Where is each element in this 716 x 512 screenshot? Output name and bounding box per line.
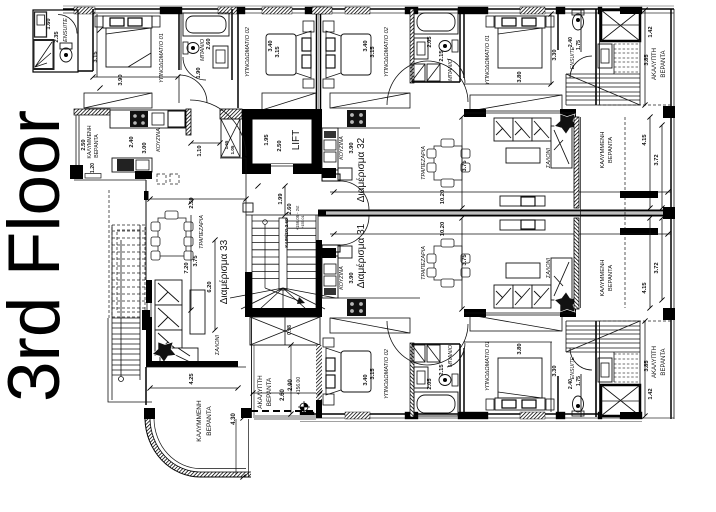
external stair lower treads xyxy=(108,225,152,402)
svg-text:ENSUITE: ENSUITE xyxy=(570,356,576,379)
veranda dims xyxy=(150,387,238,389)
svg-text:3.85: 3.85 xyxy=(644,54,650,66)
apt33 left wall xyxy=(146,280,152,366)
ensuite right wall xyxy=(580,9,582,52)
washbasin cabinet xyxy=(35,12,47,37)
svg-text:3.15: 3.15 xyxy=(275,46,281,58)
main staircase xyxy=(230,215,336,310)
toilet apt32 xyxy=(452,40,458,52)
svg-text:ΑΚΑΛΥΠΤΗ: ΑΚΑΛΥΠΤΗ xyxy=(652,48,658,80)
external stair dashed upper flight xyxy=(109,190,145,318)
svg-text:10.20: 10.20 xyxy=(440,222,446,237)
dining table apt32 xyxy=(427,139,470,187)
bedroom01-32 walls xyxy=(463,9,465,78)
kitchen top counter xyxy=(110,110,186,128)
svg-text:+156.00: +156.00 xyxy=(296,377,302,395)
svg-text:3.30: 3.30 xyxy=(552,49,558,60)
svg-text:ΒΕΡΑΝΤΑ: ΒΕΡΑΝΤΑ xyxy=(608,265,614,291)
svg-text:2.40: 2.40 xyxy=(568,379,574,389)
svg-text:ΑΚΑΛΥΠΤΗ: ΑΚΑΛΥΠΤΗ xyxy=(257,375,264,409)
svg-text:ΚΟΥΖΙΝΑ: ΚΟΥΖΙΝΑ xyxy=(339,136,345,160)
toilet apt33 xyxy=(183,42,188,54)
svg-text:1.60: 1.60 xyxy=(46,18,52,29)
svg-text:Διαμέρισμα 33: Διαμέρισμα 33 xyxy=(218,239,230,304)
bathtub apt33 xyxy=(183,13,229,36)
side tables xyxy=(95,16,103,27)
corner columns xyxy=(144,408,155,419)
svg-text:ΥΠΝΟΔΩΜΑΤΙΟ 01: ΥΠΝΟΔΩΜΑΤΙΟ 01 xyxy=(485,341,491,391)
party wall bedrooms 33/32 xyxy=(316,9,318,109)
apt33 entry door xyxy=(243,203,253,212)
sofa apt33 xyxy=(155,280,198,364)
svg-text:1.95: 1.95 xyxy=(264,134,270,146)
svg-text:ΒΕΡΑΝΤΑ: ΒΕΡΑΝΤΑ xyxy=(266,377,273,406)
wardrobe apt33-01 xyxy=(84,93,152,108)
sofa apt32 xyxy=(494,118,572,168)
dashed veranda line xyxy=(624,117,626,308)
svg-text:2.60: 2.60 xyxy=(280,389,286,401)
svg-text:1.42: 1.42 xyxy=(648,26,654,37)
stair walls xyxy=(245,272,252,317)
bedroom right wall xyxy=(178,9,180,70)
svg-text:ΒΕΡΑΝΤΑ: ΒΕΡΑΝΤΑ xyxy=(661,348,667,375)
svg-text:ΚΟΥΖΙΝΑ: ΚΟΥΖΙΝΑ xyxy=(156,128,162,152)
svg-text:ENSUITE: ENSUITE xyxy=(570,46,576,69)
svg-text:4.15: 4.15 xyxy=(642,282,648,294)
svg-text:3.40: 3.40 xyxy=(363,40,369,51)
ensuite apt33 outline xyxy=(33,10,78,72)
kitchen island apt32 xyxy=(322,168,336,178)
toilet ensuite33 xyxy=(60,43,72,49)
corridor walls around stair top xyxy=(220,157,246,159)
svg-text:ΜΠΑΝΙΟ: ΜΠΑΝΙΟ xyxy=(448,58,454,81)
svg-text:1.42: 1.42 xyxy=(648,388,654,399)
bed apt33-01 body xyxy=(106,28,151,67)
svg-text:ΣΑΛΟΝΙ: ΣΑΛΟΝΙ xyxy=(546,257,552,279)
svg-text:+155.01: +155.01 xyxy=(301,215,305,228)
svg-text:1.99: 1.99 xyxy=(278,193,284,205)
veranda wall hatched top xyxy=(74,109,110,115)
stair shaft box topright xyxy=(601,10,640,41)
svg-text:ΒΕΡΑΝΤΑ: ΒΕΡΑΝΤΑ xyxy=(661,50,667,77)
svg-text:3.75: 3.75 xyxy=(462,254,468,266)
svg-text:ΥΠΝΟΔΩΜΑΤΙΟ 02: ΥΠΝΟΔΩΜΑΤΙΟ 02 xyxy=(384,26,390,77)
svg-text:1.20: 1.20 xyxy=(90,163,96,173)
washbasin apt32 xyxy=(414,38,428,59)
svg-text:2.60: 2.60 xyxy=(206,38,212,49)
kitchen island xyxy=(112,158,152,172)
svg-text:2.15: 2.15 xyxy=(439,364,445,376)
stools xyxy=(157,174,166,184)
door arc bedroom01-33 xyxy=(179,75,207,103)
cabinet boxes xyxy=(412,64,425,81)
svg-text:ΚΟΥΖΙΝΑ: ΚΟΥΖΙΝΑ xyxy=(339,266,345,290)
corridor arc apt33 xyxy=(190,100,246,156)
svg-text:2.15: 2.15 xyxy=(439,50,445,62)
plant apt33 xyxy=(153,342,177,362)
svg-text:LIFT: LIFT xyxy=(291,130,302,151)
fridge xyxy=(168,111,185,127)
entry door apt32 xyxy=(322,174,340,181)
middle lower boundary lines xyxy=(251,317,253,418)
svg-text:ΜΠΑΝΙΟ: ΜΠΑΝΙΟ xyxy=(448,344,454,367)
svg-text:+156.05 - 2st: +156.05 - 2st xyxy=(295,205,300,230)
party wall between apt31 and apt32 xyxy=(318,209,674,211)
dimension tick marks xyxy=(90,7,670,479)
svg-text:3.90: 3.90 xyxy=(349,142,355,153)
svg-text:ΥΠΝΟΔΩΜΑΤΙΟ 02: ΥΠΝΟΔΩΜΑΤΙΟ 02 xyxy=(245,26,251,77)
svg-text:0.98: 0.98 xyxy=(287,325,293,335)
hob apt32 xyxy=(347,110,366,127)
bathroom apt33 xyxy=(180,9,182,70)
svg-text:ΚΑΛΥΜΜΕΝΗ: ΚΑΛΥΜΜΕΝΗ xyxy=(600,260,606,297)
svg-text:ΚΑΛΥΜΜΕΝΗ: ΚΑΛΥΜΜΕΝΗ xyxy=(87,125,93,158)
tv unit apt32 xyxy=(500,196,545,206)
shower xyxy=(34,40,54,69)
svg-text:1.05: 1.05 xyxy=(230,145,235,154)
apartment31 mirrored geometry xyxy=(322,216,675,419)
washbasin by stairs xyxy=(598,44,612,68)
svg-text:3.30: 3.30 xyxy=(552,365,558,376)
svg-text:2.35: 2.35 xyxy=(54,31,60,43)
veranda left wall window xyxy=(75,115,77,168)
ensuite door arc xyxy=(58,15,77,34)
svg-text:3.80: 3.80 xyxy=(517,71,523,82)
bedroom02 apt33 walls xyxy=(237,9,239,108)
salon right wall xyxy=(574,117,579,208)
svg-text:ENSUITE: ENSUITE xyxy=(63,18,69,42)
svg-text:4.15: 4.15 xyxy=(642,134,648,146)
svg-text:ΒΕΡΑΝΤΑ: ΒΕΡΑΝΤΑ xyxy=(94,134,100,158)
svg-text:3.00: 3.00 xyxy=(142,142,148,153)
bed apt32-02 xyxy=(341,34,371,75)
svg-text:ΚΑΛΥΜΜΕΝΗ: ΚΑΛΥΜΜΕΝΗ xyxy=(196,400,203,442)
svg-text:3rd Floor: 3rd Floor xyxy=(0,110,75,402)
svg-text:ΣΑΛΟΝΙ: ΣΑΛΟΝΙ xyxy=(546,147,552,169)
svg-text:2.60: 2.60 xyxy=(287,203,293,214)
bathroom apt32 xyxy=(410,9,414,83)
bottom exterior wall xyxy=(300,413,642,415)
svg-text:3.40: 3.40 xyxy=(363,374,369,385)
svg-text:3.75: 3.75 xyxy=(462,160,468,172)
svg-text:ΥΠΝΟΔΩΜΑΤΙΟ 01: ΥΠΝΟΔΩΜΑΤΙΟ 01 xyxy=(485,35,491,85)
coffee table xyxy=(190,290,205,334)
svg-text:3.72: 3.72 xyxy=(654,262,660,273)
svg-text:3.15: 3.15 xyxy=(370,368,376,380)
svg-text:2.05: 2.05 xyxy=(427,36,433,48)
top exterior wall xyxy=(63,8,674,10)
lower stair flight topright xyxy=(566,41,640,105)
wardrobe apt32-02 xyxy=(330,93,410,108)
svg-text:1.10: 1.10 xyxy=(197,145,203,156)
washbasin apt33 xyxy=(213,46,228,68)
level marker xyxy=(300,403,308,411)
svg-text:3.85: 3.85 xyxy=(644,360,650,372)
svg-text:ΤΡΑΠΕΖΑΡΙΑ: ΤΡΑΠΕΖΑΡΙΑ xyxy=(421,146,427,180)
svg-text:2.40: 2.40 xyxy=(568,37,574,47)
hob xyxy=(130,111,148,127)
svg-text:ΒΕΡΑΝΤΑ: ΒΕΡΑΝΤΑ xyxy=(608,137,614,163)
svg-text:ΥΠΝΟΔΩΜΑΤΙΟ 02: ΥΠΝΟΔΩΜΑΤΙΟ 02 xyxy=(384,348,390,399)
wardrobe apt32-01 xyxy=(470,95,562,111)
svg-text:6.20: 6.20 xyxy=(207,281,213,292)
dashed boundary akalipti top xyxy=(598,104,671,106)
svg-text:ΒΕΡΑΝΤΑ: ΒΕΡΑΝΤΑ xyxy=(206,406,213,436)
svg-text:3.40: 3.40 xyxy=(268,40,274,51)
corridor arcs apt32 xyxy=(387,61,427,105)
svg-text:3.15: 3.15 xyxy=(93,51,99,63)
svg-text:ΣΑΛΟΝΙ: ΣΑΛΟΝΙ xyxy=(215,334,221,356)
svg-text:3.90: 3.90 xyxy=(118,74,124,85)
bathtub apt32 xyxy=(414,10,458,34)
sink xyxy=(152,113,164,125)
svg-text:2.40: 2.40 xyxy=(129,136,135,147)
bedroom01 apt33 left wall xyxy=(92,9,94,71)
bed apt33-02 (head against party wall) xyxy=(266,34,296,75)
void shaft below stair xyxy=(250,317,320,345)
svg-text:3.90: 3.90 xyxy=(349,272,355,283)
light shaft xyxy=(220,109,242,119)
divider black bars xyxy=(620,191,658,198)
svg-text:3.80: 3.80 xyxy=(517,343,523,354)
dining table apt33 xyxy=(151,211,193,260)
svg-text:ΚΑΛΥΜΜΕΝΗ: ΚΑΛΥΜΜΕΝΗ xyxy=(600,132,606,169)
bed apt32-01 xyxy=(495,16,545,28)
svg-text:2.50: 2.50 xyxy=(277,140,283,151)
svg-text:3.15: 3.15 xyxy=(370,46,376,58)
wall ensuite/stair xyxy=(595,9,597,105)
curved veranda edge xyxy=(148,419,252,475)
upper stair treads (dashed) xyxy=(614,44,640,72)
apt33 bottom wall xyxy=(146,361,238,367)
svg-text:7.20: 7.20 xyxy=(184,262,190,273)
svg-text:3.72: 3.72 xyxy=(654,154,660,165)
svg-text:ΤΡΑΠΕΖΑΡΙΑ: ΤΡΑΠΕΖΑΡΙΑ xyxy=(421,246,427,280)
coffee table apt32 xyxy=(506,148,540,163)
ensuite apt32 xyxy=(573,14,584,30)
dim 3.15 xyxy=(96,14,98,77)
axis right end block xyxy=(663,207,675,219)
svg-text:1.90: 1.90 xyxy=(196,67,202,78)
right exterior boundary xyxy=(670,9,672,419)
kitchen apt32 counter xyxy=(322,128,338,170)
svg-text:ΤΡΑΠΕΖΑΡΙΑ: ΤΡΑΠΕΖΑΡΙΑ xyxy=(199,215,205,249)
svg-text:4.25: 4.25 xyxy=(189,373,195,385)
bathroom door arc xyxy=(183,57,206,80)
salon apt32 top wall xyxy=(464,109,486,117)
svg-text:1.65: 1.65 xyxy=(224,140,229,149)
svg-text:ΑΚΑΛΥΠΤΗ: ΑΚΑΛΥΠΤΗ xyxy=(652,346,658,378)
svg-text:1.75: 1.75 xyxy=(576,376,582,386)
plant apt32 xyxy=(555,114,579,134)
lift shaft walls xyxy=(242,109,322,174)
svg-text:Διαμέρισμα 31: Διαμέρισμα 31 xyxy=(355,223,367,288)
svg-text:3.75: 3.75 xyxy=(193,255,199,267)
bed apt33-01 headboard xyxy=(103,16,152,28)
svg-text:2.05: 2.05 xyxy=(427,378,433,390)
svg-text:ΥΠΝΟΔΩΜΑΤΙΟ 01: ΥΠΝΟΔΩΜΑΤΙΟ 01 xyxy=(159,33,165,83)
svg-text:Διαμέρισμα 32: Διαμέρισμα 32 xyxy=(355,137,367,202)
svg-text:ΚΛΙΜ/ΣΟ 2.60: ΚΛΙΜ/ΣΟ 2.60 xyxy=(284,218,289,248)
kitchen wall right xyxy=(186,109,191,135)
